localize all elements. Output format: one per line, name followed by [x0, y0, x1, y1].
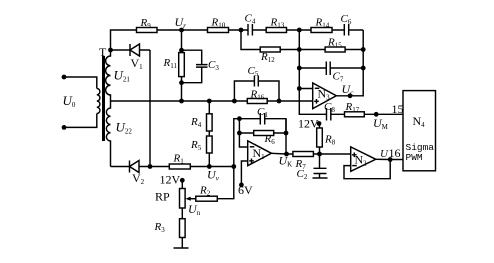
RP wiper arrow from R2: [188, 198, 196, 200]
svg-text:12V: 12V: [160, 173, 181, 187]
transformer primary wires: [62, 75, 67, 80]
resistor R8: [319, 124, 321, 155]
node R15 right: [361, 47, 366, 52]
transformer core: [102, 56, 105, 141]
node R11 bottom: [179, 80, 184, 85]
op-amp N3: [313, 83, 337, 109]
node rectifier output: [148, 164, 153, 169]
svg-text:T: T: [99, 45, 107, 59]
wire R7 to N2: [313, 153, 350, 155]
node after R13: [297, 28, 302, 33]
ground under R3: [174, 238, 189, 249]
wire rectifier column: [149, 50, 151, 167]
capacitor C1: [260, 113, 264, 125]
resistor R5: [208, 153, 210, 167]
node R11 top: [179, 48, 184, 53]
node 6V: [239, 183, 244, 188]
node R4 top rail: [207, 99, 212, 104]
node Uc: [348, 93, 353, 98]
node R6 right: [284, 131, 289, 136]
capacitor C5 branch: [234, 81, 279, 101]
12V terminal left: [180, 178, 185, 183]
capacitor C8: [327, 108, 331, 121]
wire R6 row: [239, 132, 286, 134]
resistor R6: [254, 131, 274, 136]
node N3 minus input: [297, 86, 302, 91]
node UM: [374, 112, 379, 117]
svg-text:12V: 12V: [298, 117, 319, 131]
wire R12 row: [241, 30, 363, 50]
node Uv: [231, 164, 236, 169]
node pin16: [388, 157, 393, 162]
resistor R13: [266, 28, 286, 33]
wire R11 column: [181, 30, 183, 101]
wire C1 row: [239, 119, 286, 133]
wire N1 minus input: [239, 119, 247, 147]
node C7 right: [361, 66, 366, 71]
resistor R16: [247, 99, 267, 104]
node C7 left: [297, 66, 302, 71]
svg-text:RP: RP: [155, 190, 170, 204]
svg-text:16: 16: [389, 146, 401, 160]
node R11 bottom rail: [179, 99, 184, 104]
resistor R15: [325, 47, 345, 52]
wire C7 row: [299, 67, 363, 69]
wire right column to Uc: [336, 30, 363, 96]
wire N1 plus input and 6V stub: [241, 161, 247, 185]
resistor R17: [345, 112, 365, 117]
resistor R14: [311, 28, 332, 33]
svg-text:PWM: PWM: [406, 152, 423, 163]
transformer secondary U22: [106, 101, 110, 167]
capacitor C7: [326, 62, 330, 76]
wire inverting column x=299: [299, 30, 312, 89]
capacitor C2: [319, 154, 321, 168]
wire Uv column to C1 and R2: [217, 119, 239, 199]
resistor R2: [196, 196, 218, 201]
wire Uv row: [150, 166, 234, 168]
svg-text:6V: 6V: [238, 183, 253, 197]
potentiometer RP: [181, 180, 183, 188]
capacitor C4: [248, 24, 252, 36]
node T: [108, 48, 113, 53]
12V terminal right: [317, 121, 322, 126]
node C5 right rail: [277, 99, 282, 104]
op-amp N1: [248, 141, 272, 166]
ground under C2: [313, 174, 328, 179]
node Ur: [179, 28, 184, 33]
node C1 left: [237, 116, 242, 121]
resistor R9: [137, 28, 158, 33]
wire N2 feedback: [344, 160, 390, 179]
wire N2 output pin16: [376, 158, 403, 160]
node R4R5 bottom: [207, 164, 212, 169]
capacitor C3 branch: [182, 50, 202, 82]
capacitor C6: [344, 24, 348, 36]
resistor R4: [208, 101, 210, 136]
diode V2: [111, 166, 151, 168]
resistor R3: [180, 219, 186, 238]
wire C8 branch from minus node: [299, 89, 326, 115]
node R12/R15 left: [297, 47, 302, 52]
resistor R11: [179, 53, 185, 77]
wire RP to R3 with Un: [181, 208, 183, 219]
resistor R7: [293, 152, 314, 157]
svg-text:15: 15: [392, 102, 404, 116]
node R6 left: [237, 131, 242, 136]
node R7R8C2 junction: [317, 152, 322, 157]
resistor R10: [208, 28, 229, 33]
transformer primary coil: [97, 89, 100, 114]
resistor R12: [260, 47, 280, 52]
resistor R1: [169, 164, 190, 169]
block N4 Sigma PWM: [403, 91, 436, 171]
wire mid rail: [111, 100, 313, 102]
node C5 left rail: [232, 99, 237, 104]
transformer secondary U21: [106, 50, 111, 101]
diode V1: [111, 49, 151, 51]
wire C8 to R17: [331, 113, 403, 115]
wire N1 output: [271, 152, 293, 155]
node after R10: [239, 28, 244, 33]
wire C1R6 right column: [285, 119, 287, 154]
op-amp N2: [351, 147, 376, 171]
node UK: [284, 152, 289, 157]
wire top rail: [111, 30, 364, 50]
